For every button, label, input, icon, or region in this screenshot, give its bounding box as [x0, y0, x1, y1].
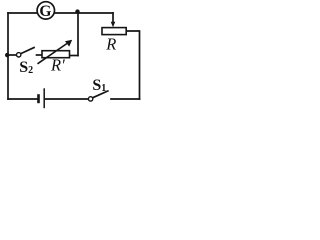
svg-text:R′: R′ — [50, 56, 65, 75]
rheostat R' box — [42, 51, 70, 58]
wire top-left segment — [8, 12, 37, 14]
galvanometer G — [37, 2, 54, 20]
wire R' right to branch — [70, 55, 79, 57]
wire S2 right stub — [37, 54, 43, 56]
switch S1 — [88, 91, 108, 102]
wire left vertical — [7, 13, 9, 99]
node junction left (8,55) — [5, 53, 9, 57]
resistor R box — [102, 28, 126, 35]
switch S2 — [17, 47, 35, 57]
wire bottom-left to battery — [8, 98, 37, 100]
wiper arrowhead onto R — [111, 22, 116, 28]
wire S2 left stub — [8, 54, 16, 56]
node junction top (78,13) — [75, 9, 79, 13]
wire wiper drop at top right — [112, 13, 114, 23]
svg-text:S2: S2 — [19, 59, 33, 76]
wire S1 to bottom-right corner — [111, 98, 140, 100]
svg-text:S1: S1 — [92, 77, 106, 94]
rheostat R' arrow — [38, 40, 73, 64]
wire battery to S1 — [45, 98, 88, 100]
wire branch vertical from top node — [77, 13, 79, 56]
wire top-right segment — [55, 12, 113, 14]
svg-text:R: R — [105, 34, 116, 53]
svg-text:G: G — [39, 3, 51, 20]
wire right vertical with R feed — [126, 31, 140, 99]
battery — [37, 88, 44, 108]
